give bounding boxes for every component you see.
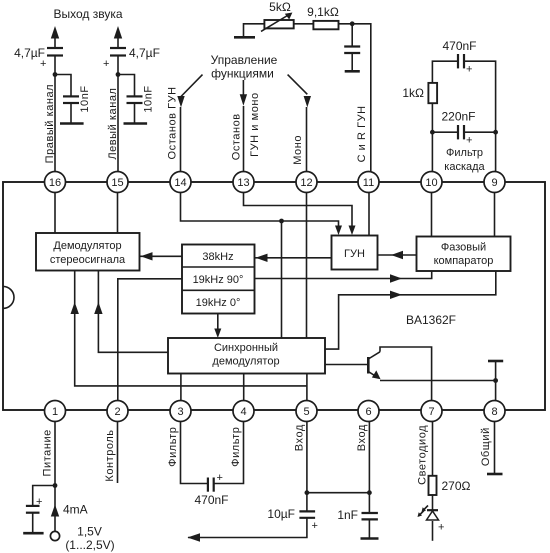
wire pin16 to stereo demod — [54, 182, 56, 233]
wire 19kHz0 to sync demod top — [217, 314, 219, 331]
wire left channel output with arrow — [117, 38, 119, 48]
node 220n right — [493, 130, 498, 135]
svg-text:9,1kΩ: 9,1kΩ — [307, 5, 339, 19]
svg-text:+: + — [466, 135, 472, 147]
svg-text:+: + — [217, 472, 223, 484]
svg-text:Питание: Питание — [42, 429, 54, 476]
pin 8 — [484, 401, 505, 422]
wire pin1 down — [54, 422, 56, 532]
svg-text:BA1362F: BA1362F — [406, 313, 456, 327]
wire pin5 to sync demod bottom — [306, 374, 308, 412]
wire R4 to LED — [432, 495, 434, 511]
wire control arrow to pin13 — [242, 80, 244, 95]
wire Q1 emitter rail to pin8 — [380, 381, 496, 412]
wire 38kHz to stereo demod — [140, 255, 183, 257]
wire pin6 down — [368, 422, 370, 514]
svg-text:Управление: Управление — [211, 53, 278, 67]
node pin5 — [305, 490, 310, 495]
pin 10 — [421, 172, 442, 193]
svg-text:1: 1 — [52, 406, 58, 418]
capacitor C5 — [344, 47, 360, 54]
wire pin3 to sync demod bottom — [180, 374, 182, 412]
block: stereo demodulator — [36, 233, 140, 271]
svg-text:+: + — [438, 522, 444, 534]
svg-text:Фильтр: Фильтр — [230, 427, 242, 467]
arrowhead into 38kHz right — [256, 254, 268, 262]
svg-text:270Ω: 270Ω — [442, 479, 471, 493]
capacitor C8 electrolytic — [26, 496, 43, 513]
svg-text:компаратор: компаратор — [434, 255, 494, 267]
wire pin4 to sync demod bottom — [243, 374, 245, 412]
svg-text:12: 12 — [300, 177, 312, 189]
arrowhead into VCO right — [391, 251, 403, 259]
svg-text:14: 14 — [174, 177, 186, 189]
wire right channel output with arrow — [54, 38, 56, 48]
svg-text:функциями: функциями — [211, 67, 274, 81]
node R2 output — [350, 21, 355, 26]
wire pin12 stub — [306, 107, 308, 172]
capacitor C2 10nF — [63, 85, 91, 112]
wire C5 to ground — [351, 53, 353, 71]
wire pin5 down — [306, 422, 308, 512]
transistor Q1 base wire from sync demod — [325, 364, 368, 366]
ground — [487, 473, 503, 476]
IC body outline BA1362F — [3, 182, 545, 410]
arrowhead into stereo demod right — [141, 252, 153, 260]
wire to C8 — [33, 486, 55, 506]
svg-text:С и R ГУН: С и R ГУН — [356, 105, 368, 162]
resistor R3 1k — [402, 83, 437, 103]
svg-text:Вход: Вход — [356, 424, 368, 451]
arrowhead flow right on 19kHz90 line — [390, 274, 402, 282]
wire C11 to ground — [368, 519, 370, 538]
pin 4 — [233, 401, 254, 422]
svg-text:Светодиод: Светодиод — [416, 425, 428, 485]
arrowhead into sync demod top — [214, 329, 221, 339]
svg-text:10nF: 10nF — [142, 85, 154, 112]
wire control arrow to pin14 — [181, 75, 203, 97]
arrowhead into VCO top left — [335, 226, 342, 236]
pin 13 — [233, 172, 254, 193]
node pin14 branch — [279, 219, 284, 224]
svg-text:стереосигнала: стереосигнала — [50, 254, 126, 266]
ground — [345, 70, 360, 73]
wire pin9 to phase comparator top — [494, 182, 496, 237]
ground — [361, 537, 379, 540]
resistor R4 270 — [429, 476, 471, 495]
pin 1 — [45, 401, 66, 422]
wire R3 to pin10 — [431, 103, 433, 171]
wire pin5 to pin6 — [307, 492, 370, 494]
terminal circle supply — [50, 531, 59, 540]
wire pot left to ground — [244, 24, 265, 37]
svg-text:Фазовый: Фазовый — [441, 242, 486, 254]
wire C3 to pin15 — [117, 56, 119, 172]
capacitor C7 220nF — [432, 110, 495, 147]
terminal stub above pin8 — [495, 361, 497, 381]
pin 11 — [358, 172, 379, 193]
wire C4 to ground — [134, 103, 136, 124]
wire to C4 — [118, 75, 135, 97]
svg-text:470nF: 470nF — [194, 493, 228, 507]
pin 16 — [45, 172, 66, 193]
svg-text:ГУН и моно: ГУН и моно — [249, 92, 261, 157]
svg-text:+: + — [103, 58, 109, 70]
svg-text:10: 10 — [425, 177, 437, 189]
svg-text:+: + — [36, 496, 42, 508]
svg-text:5: 5 — [303, 406, 309, 418]
svg-text:10µF: 10µF — [267, 507, 295, 521]
svg-text:16: 16 — [49, 177, 61, 189]
svg-text:Левый канал: Левый канал — [107, 88, 119, 160]
wire pin14 to VCO top — [181, 182, 339, 227]
pin 5 — [296, 401, 317, 422]
svg-text:Правый канал: Правый канал — [44, 84, 56, 163]
wire pin13 to VCO top — [244, 182, 353, 227]
arrowhead 4mA current up — [51, 505, 59, 517]
svg-text:Вход: Вход — [294, 424, 306, 451]
node pin16 branch — [53, 72, 58, 77]
svg-text:2: 2 — [114, 406, 120, 418]
svg-text:Общий: Общий — [480, 427, 492, 466]
svg-text:8: 8 — [491, 406, 497, 418]
svg-text:1nF: 1nF — [337, 508, 358, 522]
wire sync demod right to phase comparator bottom — [325, 271, 496, 349]
svg-text:+: + — [40, 58, 46, 70]
wire control arrow to pin12 — [288, 75, 308, 95]
wire Q1 collector to pin7 — [380, 347, 432, 411]
arrowhead input left — [187, 533, 200, 541]
wire pin12 to sync demod top — [306, 182, 308, 338]
wire stereo demod left input from composite — [75, 271, 307, 386]
svg-text:Останов ГУН: Останов ГУН — [166, 86, 178, 159]
svg-text:38kHz: 38kHz — [202, 251, 233, 263]
svg-text:7: 7 — [428, 406, 434, 418]
capacitor C1 4,7uF — [14, 46, 63, 70]
svg-text:Выход звука: Выход звука — [53, 7, 122, 21]
arrowhead flow right on sync-to-phase line — [390, 291, 402, 299]
transistor Q1 — [368, 352, 380, 380]
svg-text:13: 13 — [237, 177, 249, 189]
pin 15 — [107, 172, 128, 193]
block: VCO (GUN) — [332, 236, 378, 270]
wire pin2 down — [117, 422, 119, 484]
wire pin8 to ground — [494, 422, 496, 474]
node emitter-pin8 junction — [493, 378, 498, 383]
wire phase comparator to VCO — [378, 254, 417, 256]
wire LED down — [432, 521, 434, 541]
wire node to C5 — [351, 24, 353, 47]
svg-text:Останов: Останов — [230, 113, 242, 160]
ground — [60, 122, 84, 125]
node pin15 branch — [116, 72, 121, 77]
svg-text:ГУН: ГУН — [344, 248, 365, 260]
svg-text:Контроль: Контроль — [104, 429, 116, 481]
wire pin11 to VCO top — [368, 182, 370, 236]
svg-text:10nF: 10nF — [79, 85, 91, 112]
wire VCO to 38kHz — [255, 257, 332, 259]
wire pin2 riser to 19kHz90 left — [118, 279, 182, 411]
wire to C2 — [55, 75, 71, 97]
svg-text:1,5V: 1,5V — [77, 525, 102, 539]
svg-text:Синхронный: Синхронный — [214, 342, 278, 354]
svg-text:Демодулятор: Демодулятор — [53, 240, 121, 252]
wire R2 to pin11 — [339, 24, 371, 172]
svg-text:4: 4 — [240, 406, 246, 418]
svg-text:Фильтр: Фильтр — [167, 427, 179, 467]
capacitor C4 10nF — [127, 85, 155, 112]
arrowhead flow up left — [71, 302, 79, 314]
notch — [3, 286, 14, 308]
ground — [234, 36, 255, 39]
svg-text:+: + — [466, 64, 472, 76]
svg-text:15: 15 — [111, 177, 123, 189]
svg-text:19kHz 0°: 19kHz 0° — [196, 297, 241, 309]
pin 14 — [170, 172, 191, 193]
svg-text:+: + — [312, 520, 318, 532]
capacitor C3 4,7uF — [103, 46, 160, 70]
svg-text:3: 3 — [177, 406, 183, 418]
svg-text:9: 9 — [491, 177, 497, 189]
wire 19kHz90 to phase comparator bottom — [255, 271, 432, 279]
block: phase comparator — [417, 237, 511, 272]
svg-text:220nF: 220nF — [441, 110, 475, 124]
wire pin3 to C9 — [181, 422, 208, 484]
capacitor C11 1nF — [337, 508, 378, 522]
svg-text:19kHz 90°: 19kHz 90° — [193, 274, 244, 286]
resistor R2 9,1k — [307, 5, 339, 29]
svg-text:1kΩ: 1kΩ — [402, 86, 424, 100]
wire pin14-node to sync demod top — [281, 221, 283, 338]
svg-text:6: 6 — [365, 406, 371, 418]
svg-text:каскада: каскада — [444, 161, 485, 173]
capacitor C6 470nF — [442, 39, 476, 76]
wire pin14 stub — [180, 107, 182, 172]
wire C10 to input arrow — [188, 518, 307, 538]
svg-text:Фильтр: Фильтр — [446, 147, 483, 159]
node 220n left — [430, 130, 435, 135]
wire pot to R2 — [294, 23, 314, 25]
pin 2 — [107, 401, 128, 422]
ground — [23, 532, 43, 535]
block: 38kHz divider — [182, 245, 255, 314]
node pin6 — [367, 490, 372, 495]
pin 7 — [421, 401, 442, 422]
wire pin4 to C9 — [214, 422, 244, 484]
svg-text:470nF: 470nF — [442, 39, 476, 53]
pin 3 — [170, 401, 191, 422]
capacitor C10 10uF — [267, 507, 318, 532]
svg-text:5kΩ: 5kΩ — [269, 0, 291, 14]
svg-text:Моно: Моно — [292, 135, 304, 165]
svg-text:(1...2,5V): (1...2,5V) — [65, 538, 114, 552]
wire pin10 to phase comparator top — [431, 182, 433, 237]
wire stereo demod right input from sync demod — [98, 271, 168, 353]
potentiometer R1 5k — [261, 0, 294, 31]
node pin1 branch — [53, 483, 58, 488]
capacitor C9 470nF — [194, 472, 228, 507]
wire C8 to ground — [32, 513, 34, 534]
ground — [124, 122, 148, 125]
wire top filter loop — [432, 61, 458, 103]
svg-text:11: 11 — [363, 177, 374, 189]
pin 9 — [484, 172, 505, 193]
wire pin7 to R4 — [432, 422, 434, 476]
pin 12 — [296, 172, 317, 193]
LED D1 — [418, 506, 445, 534]
wire C2 to ground — [70, 103, 72, 124]
block: synchronous demodulator — [168, 338, 325, 374]
arrowhead flow up right — [94, 302, 102, 314]
svg-text:демодулятор: демодулятор — [212, 356, 279, 368]
arrowhead into VCO top right — [349, 226, 356, 236]
wire C1 to pin16 — [54, 56, 56, 172]
wire pin13 stub — [243, 106, 245, 172]
svg-text:4mA: 4mA — [63, 503, 88, 517]
wire pin15 to stereo demod — [117, 182, 119, 233]
svg-text:4,7µF: 4,7µF — [129, 46, 160, 60]
pin 6 — [358, 401, 379, 422]
